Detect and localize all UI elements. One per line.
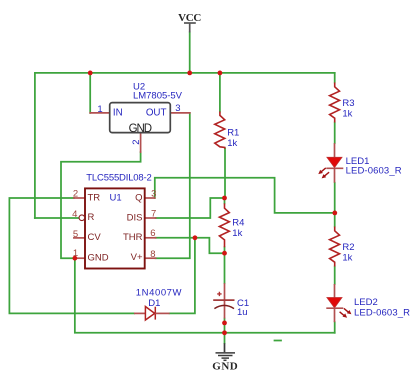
svg-text:GND: GND bbox=[212, 360, 238, 372]
svg-text:D1: D1 bbox=[148, 298, 160, 309]
svg-text:1: 1 bbox=[73, 248, 78, 259]
svg-text:GND: GND bbox=[88, 253, 109, 264]
svg-text:2: 2 bbox=[131, 140, 142, 145]
svg-text:GND: GND bbox=[129, 123, 152, 135]
svg-text:IN: IN bbox=[113, 107, 123, 118]
svg-text:VCC: VCC bbox=[178, 12, 201, 24]
svg-text:1k: 1k bbox=[232, 228, 242, 239]
svg-text:7: 7 bbox=[151, 208, 156, 219]
svg-text:R3: R3 bbox=[342, 98, 354, 109]
svg-text:4: 4 bbox=[72, 209, 77, 220]
svg-text:R: R bbox=[88, 212, 95, 223]
svg-text:CV: CV bbox=[88, 232, 102, 243]
svg-text:5: 5 bbox=[73, 229, 78, 240]
svg-text:DIS: DIS bbox=[127, 212, 143, 223]
svg-text:1k: 1k bbox=[342, 108, 352, 119]
svg-text:1k: 1k bbox=[342, 252, 352, 263]
svg-text:1N4007W: 1N4007W bbox=[136, 287, 182, 298]
svg-text:6: 6 bbox=[150, 228, 155, 239]
svg-text:TLC555DIL08-2: TLC555DIL08-2 bbox=[86, 172, 152, 183]
svg-text:1k: 1k bbox=[227, 138, 237, 149]
svg-text:LM7805-5V: LM7805-5V bbox=[133, 91, 183, 102]
svg-text:1u: 1u bbox=[237, 307, 248, 318]
svg-text:8: 8 bbox=[150, 249, 155, 260]
svg-text:LED-0603_R: LED-0603_R bbox=[346, 165, 402, 176]
svg-text:TR: TR bbox=[88, 192, 101, 203]
svg-text:LED-0603_R: LED-0603_R bbox=[354, 307, 410, 318]
svg-text:R4: R4 bbox=[232, 217, 244, 228]
svg-text:2: 2 bbox=[73, 188, 78, 199]
svg-text:Q: Q bbox=[135, 193, 142, 204]
svg-text:U1: U1 bbox=[110, 192, 122, 203]
svg-text:3: 3 bbox=[151, 189, 156, 200]
svg-text:OUT: OUT bbox=[146, 107, 167, 118]
svg-text:1: 1 bbox=[97, 104, 102, 115]
svg-text:R2: R2 bbox=[342, 242, 354, 253]
svg-text:THR: THR bbox=[123, 232, 143, 243]
svg-text:V+: V+ bbox=[131, 252, 143, 263]
svg-text:3: 3 bbox=[175, 103, 180, 114]
svg-text:R1: R1 bbox=[227, 128, 239, 139]
